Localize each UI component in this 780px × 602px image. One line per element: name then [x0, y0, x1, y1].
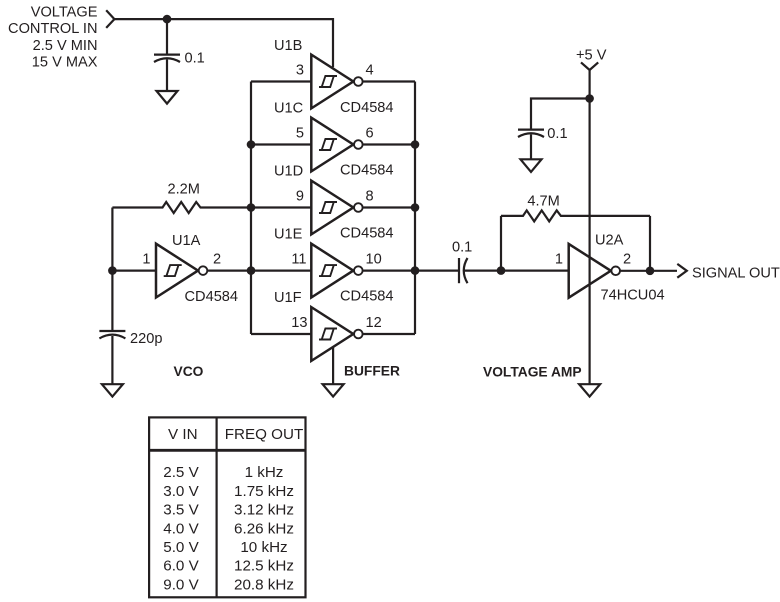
svg-text:10 kHz: 10 kHz [240, 539, 287, 556]
capacitor C2 220p [99, 331, 162, 347]
svg-text:+5 V: +5 V [576, 48, 607, 64]
svg-text:CD4584: CD4584 [340, 225, 394, 241]
wire top rail from input to U1B [114, 19, 333, 67]
svg-text:U1D: U1D [274, 164, 303, 180]
input port chevron [106, 10, 114, 28]
svg-text:0.1: 0.1 [185, 51, 205, 67]
wire C1 to ground [166, 60, 168, 92]
node junction U2A input [497, 266, 506, 275]
svg-text:V IN: V IN [168, 426, 198, 443]
svg-text:VOLTAGE AMP: VOLTAGE AMP [483, 364, 582, 379]
node junction right bus U1D [411, 203, 420, 212]
wire C3 to U2A input [465, 270, 569, 272]
svg-text:4: 4 [366, 62, 374, 78]
node junction right bus U1C [411, 140, 420, 149]
wire U1C input [251, 143, 311, 145]
svg-text:1.75 kHz: 1.75 kHz [234, 483, 294, 500]
svg-text:U1F: U1F [274, 290, 302, 306]
ground (voltage amp rail) [579, 384, 600, 396]
wire U1A input [112, 270, 156, 272]
svg-text:0.1: 0.1 [452, 240, 472, 256]
svg-text:2.5 V MIN: 2.5 V MIN [33, 38, 98, 54]
ground (C2) [102, 384, 123, 396]
wire U1D output [363, 206, 415, 208]
svg-text:VCO: VCO [174, 364, 204, 379]
svg-text:10: 10 [366, 252, 382, 268]
node junction left bus U1D [247, 203, 256, 212]
node junction left bus U1C [247, 140, 256, 149]
svg-text:4.0 V: 4.0 V [163, 520, 199, 537]
svg-text:20.8 kHz: 20.8 kHz [234, 576, 294, 593]
capacitor C1 0.1 [154, 51, 205, 67]
svg-text:U1C: U1C [274, 101, 303, 117]
op-amp U1C (Schmitt inverter) [311, 118, 362, 172]
wire +5V to C4 [531, 99, 590, 130]
svg-text:12.5 kHz: 12.5 kHz [234, 558, 294, 575]
node junction output [646, 267, 655, 276]
wire U1C output [363, 143, 415, 145]
wire +5V rail vertical [588, 70, 590, 384]
svg-text:2.5 V: 2.5 V [163, 464, 199, 481]
node junction right bus U1E [411, 266, 420, 275]
svg-text:2.2M: 2.2M [168, 181, 200, 197]
svg-text:0.1: 0.1 [547, 126, 567, 142]
node junction U1A input [108, 266, 117, 275]
port SIGNAL OUT chevron [677, 264, 687, 278]
svg-text:6.26 kHz: 6.26 kHz [234, 520, 294, 537]
power +5V chevron [581, 62, 598, 70]
svg-text:8: 8 [366, 188, 374, 204]
wire right bus to C3 [415, 270, 459, 272]
svg-text:9.0 V: 9.0 V [163, 576, 199, 593]
wire left bus (inputs of U1B-U1F) [250, 82, 252, 335]
svg-text:9: 9 [296, 188, 304, 204]
op-amp U1B (Schmitt inverter) [311, 55, 362, 109]
svg-text:SIGNAL OUT: SIGNAL OUT [692, 266, 780, 282]
svg-text:3: 3 [296, 62, 304, 78]
svg-text:U1B: U1B [274, 38, 302, 54]
svg-text:3.12 kHz: 3.12 kHz [234, 502, 294, 519]
wire U1E output [363, 270, 415, 272]
wire U1F to ground (buffer) [332, 348, 334, 385]
svg-text:CD4584: CD4584 [340, 100, 394, 116]
svg-text:74HCU04: 74HCU04 [601, 288, 665, 304]
svg-text:15 V MAX: 15 V MAX [32, 55, 98, 71]
svg-text:13: 13 [291, 315, 307, 331]
wire feedback 4.7M left leg [500, 216, 502, 271]
wire U1B input [251, 80, 311, 82]
svg-text:5.0 V: 5.0 V [163, 539, 199, 556]
ground (buffer) [323, 384, 344, 396]
node junction left bus U1E [247, 266, 256, 275]
svg-text:11: 11 [291, 252, 306, 268]
op-amp U1E (Schmitt inverter) [311, 244, 362, 298]
wire C4 to ground [530, 135, 532, 160]
svg-text:5: 5 [296, 125, 304, 141]
svg-text:1 kHz: 1 kHz [245, 464, 284, 481]
svg-text:3.5 V: 3.5 V [163, 502, 199, 519]
svg-text:3.0 V: 3.0 V [163, 483, 199, 500]
wire right bus (outputs of U1B-U1F) [414, 82, 416, 335]
svg-text:CONTROL IN: CONTROL IN [8, 21, 97, 37]
wire junction to C1 [166, 19, 168, 53]
svg-text:2: 2 [623, 252, 631, 268]
node junction at C1 [163, 15, 172, 24]
svg-text:CD4584: CD4584 [340, 289, 394, 305]
wire feedback left vertical [111, 208, 113, 332]
svg-text:6.0 V: 6.0 V [163, 558, 199, 575]
svg-text:2: 2 [213, 252, 221, 268]
svg-text:U2A: U2A [595, 232, 624, 248]
op-amp U1A (Schmitt inverter) [156, 244, 207, 298]
svg-text:1: 1 [555, 252, 563, 268]
node junction +5V [585, 94, 594, 103]
svg-text:4.7M: 4.7M [527, 193, 559, 209]
table V IN / FREQ OUT [149, 417, 305, 597]
wire feedback 4.7M right leg [649, 216, 651, 271]
svg-text:220p: 220p [130, 331, 162, 347]
wire U1A output to left bus [208, 270, 252, 272]
op-amp U2A (74HCU04 inverter) [569, 244, 620, 298]
ground (C1) [157, 91, 178, 104]
ground (C4) [521, 159, 542, 172]
svg-text:1: 1 [142, 252, 150, 268]
svg-text:6: 6 [366, 125, 374, 141]
wire U1F output [363, 333, 415, 335]
wire C2 to ground [111, 336, 113, 384]
capacitor C3 0.1 (coupling) [452, 240, 472, 284]
wire U1D input [251, 206, 311, 208]
svg-text:U1A: U1A [172, 233, 201, 249]
svg-text:BUFFER: BUFFER [344, 364, 400, 379]
op-amp U1D (Schmitt inverter) [311, 181, 362, 235]
capacitor C4 0.1 (bypass) [518, 126, 568, 142]
wire U1E input [251, 270, 311, 272]
resistor R2 4.7M [501, 193, 650, 221]
op-amp U1F (Schmitt inverter) [311, 307, 362, 361]
svg-text:VOLTAGE: VOLTAGE [31, 5, 98, 21]
svg-text:CD4584: CD4584 [185, 289, 239, 305]
node VOLTAGE CONTROL IN label [8, 5, 98, 71]
svg-text:12: 12 [366, 315, 382, 331]
resistor R1 2.2M [112, 181, 251, 213]
svg-text:FREQ OUT: FREQ OUT [225, 426, 303, 443]
wire U2A output [620, 270, 677, 272]
svg-text:U1E: U1E [274, 227, 303, 243]
wire U1F input [251, 333, 311, 335]
wire U1B output [363, 80, 415, 82]
svg-text:CD4584: CD4584 [340, 162, 394, 178]
